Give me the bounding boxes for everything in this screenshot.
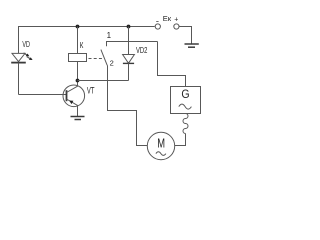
label minus	[156, 21, 158, 23]
svg-text:К: К	[80, 41, 84, 50]
svg-text:VT: VT	[87, 85, 95, 95]
wire relay dashed link	[89, 58, 104, 60]
wire top rail	[18, 26, 155, 28]
svg-text:+: +	[174, 17, 178, 24]
motor sine	[156, 152, 166, 156]
wire contact 1 to generator	[158, 42, 186, 87]
diode VD2	[123, 55, 135, 64]
wire LED cathode down	[18, 63, 20, 95]
wire relay to collector node	[77, 62, 79, 81]
terminal plus	[174, 24, 179, 29]
ground (battery)	[185, 44, 199, 47]
svg-text:Ек: Ек	[163, 14, 172, 23]
LED VD	[11, 53, 32, 63]
generator sine	[179, 104, 192, 109]
switch blade	[101, 50, 107, 66]
node B junction dot	[76, 79, 80, 83]
transistor VT	[63, 81, 85, 107]
relay K coil	[69, 54, 87, 62]
wire collector node to diode	[78, 80, 129, 82]
generator G box	[171, 87, 201, 114]
wire left drop to LED	[18, 27, 20, 54]
wire plus to ground	[179, 27, 192, 45]
node A junction dot	[76, 25, 80, 29]
svg-text:G: G	[181, 88, 189, 101]
wire diode to node B rail	[128, 63, 130, 80]
switch contact 1	[107, 42, 158, 47]
ground (emitter)	[71, 117, 85, 120]
wire switch lead to motor	[108, 65, 148, 145]
inductor squiggle	[183, 114, 188, 134]
wire squiggle to motor	[175, 134, 186, 146]
svg-text:VD: VD	[22, 40, 30, 49]
wire relay drop	[77, 27, 79, 54]
svg-text:1: 1	[107, 31, 112, 40]
svg-text:M: M	[157, 136, 165, 151]
node C junction dot	[127, 25, 131, 29]
svg-text:VD2: VD2	[136, 46, 148, 55]
wire diode drop	[128, 27, 130, 55]
svg-text:2: 2	[110, 58, 114, 67]
wire base lead	[19, 94, 67, 96]
motor M	[147, 132, 174, 159]
wire emitter down	[77, 106, 79, 116]
terminal minus	[155, 24, 160, 29]
